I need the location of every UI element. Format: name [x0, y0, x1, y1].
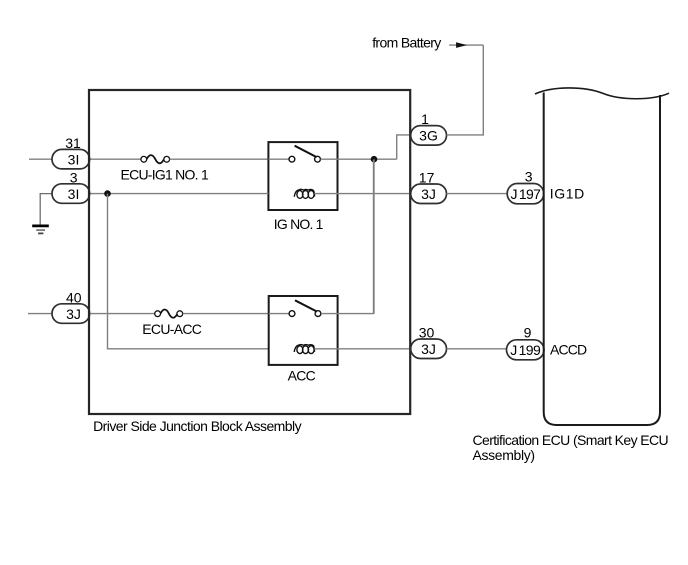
- svg-text:Assembly): Assembly): [473, 447, 535, 463]
- wire inside ACC relay to left contact: [269, 313, 289, 315]
- wire row3: fuse to relay: [183, 313, 269, 315]
- pin number 40: [66, 289, 82, 305]
- pin number 30: [419, 325, 435, 341]
- coil ACC: [294, 345, 314, 354]
- svg-text:3I: 3I: [68, 152, 80, 168]
- pin number 1: [421, 111, 429, 127]
- svg-text:IG1D: IG1D: [550, 185, 585, 201]
- connector pill 3I pin 3: [52, 184, 90, 204]
- svg-text:31: 31: [65, 135, 81, 151]
- net label ACCD: [550, 342, 587, 358]
- connector pill 3J pin 40: [52, 304, 90, 324]
- node junction dot row2: [104, 190, 111, 197]
- junction block Driver Side Junction Block Assembly: [89, 90, 410, 414]
- svg-text:1: 1: [421, 111, 429, 127]
- wire row1: relay to corner up to 3G: [338, 135, 412, 159]
- arrowhead from Battery: [456, 42, 467, 48]
- wire row3: pill to fuse: [89, 313, 155, 315]
- svg-text:J 197: J 197: [510, 186, 541, 202]
- svg-text:ACCD: ACCD: [550, 342, 587, 358]
- connector pill J197 pin 3: [507, 184, 544, 204]
- svg-text:3J: 3J: [421, 186, 436, 202]
- relay U2 box ACC: [269, 296, 338, 365]
- switch contact left (ACC relay): [289, 311, 295, 317]
- svg-text:ECU-ACC: ECU-ACC: [142, 321, 201, 337]
- svg-text:30: 30: [419, 325, 435, 341]
- switch blade (ACC relay): [295, 300, 317, 311]
- svg-text:3: 3: [525, 169, 533, 185]
- ground wire from pill2: [40, 194, 52, 226]
- connector pill 3J pin 17: [411, 184, 447, 204]
- svg-text:ECU-IG1 NO. 1: ECU-IG1 NO. 1: [121, 166, 209, 182]
- switch contact left (IG relay): [289, 156, 295, 162]
- svg-text:Certification ECU (Smart Key E: Certification ECU (Smart Key ECU: [473, 432, 669, 448]
- switch contact right (IG relay): [315, 156, 321, 162]
- svg-text:Driver Side Junction Block Ass: Driver Side Junction Block Assembly: [93, 418, 301, 434]
- connector pill J199 pin 9: [507, 340, 545, 360]
- svg-text:9: 9: [524, 325, 532, 341]
- label relay IG NO. 1: [274, 216, 324, 232]
- svg-text:J 199: J 199: [510, 342, 541, 358]
- wire right contact to edge then up to row1: [321, 160, 374, 314]
- switch contact right (ACC relay): [315, 311, 321, 317]
- wire coil to relay right edge and out to 3J pill: [314, 193, 411, 195]
- ECU box Certification ECU wavy top: [535, 88, 669, 425]
- label fuse ECU-ACC: [142, 321, 201, 337]
- node junction dot row1: [371, 156, 378, 163]
- wire 3J17 to J197: [447, 193, 508, 195]
- pin number 9 (J199): [524, 325, 532, 341]
- switch blade (IG relay): [295, 146, 317, 157]
- svg-text:40: 40: [66, 289, 82, 305]
- svg-text:from Battery: from Battery: [372, 35, 441, 51]
- svg-text:3: 3: [70, 169, 78, 185]
- wire row1 left stub: [29, 158, 53, 160]
- svg-text:ACC: ACC: [288, 367, 316, 383]
- connector pill 3I pin 31: [52, 149, 90, 169]
- pin number 31: [65, 135, 81, 151]
- svg-text:17: 17: [419, 170, 435, 186]
- label Certification ECU (Smart Key ECU Assembly): [473, 432, 669, 463]
- wire right contact to relay edge: [321, 158, 338, 160]
- svg-text:3I: 3I: [68, 186, 80, 202]
- fuse ECU-IG1 NO. 1: [141, 155, 170, 163]
- wire from 3G to battery corner: [447, 45, 484, 135]
- pin number 17: [419, 170, 435, 186]
- coil IG NO. 1: [294, 189, 314, 198]
- connector pill 3G pin 1: [411, 126, 447, 146]
- wire ACC coil to 3J pin30 pill: [314, 348, 411, 350]
- wire row1: fuse to relay: [170, 158, 268, 160]
- relay U1 box IG NO. 1: [268, 142, 337, 210]
- wire 3J30 to J199: [447, 348, 507, 350]
- svg-text:3G: 3G: [419, 128, 438, 144]
- label from Battery: [372, 35, 441, 51]
- svg-text:3J: 3J: [66, 306, 81, 322]
- label relay ACC: [288, 367, 316, 383]
- label Driver Side Junction Block Assembly: [93, 418, 301, 434]
- connector pill 3J pin 30: [411, 339, 447, 359]
- wire row2 IG coil row: pill2 to relay: [89, 193, 268, 195]
- wire from Battery arrow line: [449, 44, 483, 46]
- wire inside relay to left contact: [268, 158, 289, 160]
- wire row3 left stub: [28, 313, 53, 315]
- svg-text:IG NO. 1: IG NO. 1: [274, 216, 324, 232]
- pin number 3 (J197): [525, 169, 533, 185]
- fuse ECU-ACC: [155, 310, 183, 318]
- wire vertical from dot down to ACC switch output: [373, 159, 375, 313]
- wire row1: pill to fuse: [89, 158, 142, 160]
- net label IG1D: [550, 185, 585, 201]
- label fuse ECU-IG1 NO. 1: [121, 166, 209, 182]
- svg-text:3J: 3J: [421, 341, 436, 357]
- wire vertical from row2 dot down to ACC coil row: [108, 194, 269, 349]
- ground symbol: [32, 226, 49, 234]
- pin number 3: [70, 169, 78, 185]
